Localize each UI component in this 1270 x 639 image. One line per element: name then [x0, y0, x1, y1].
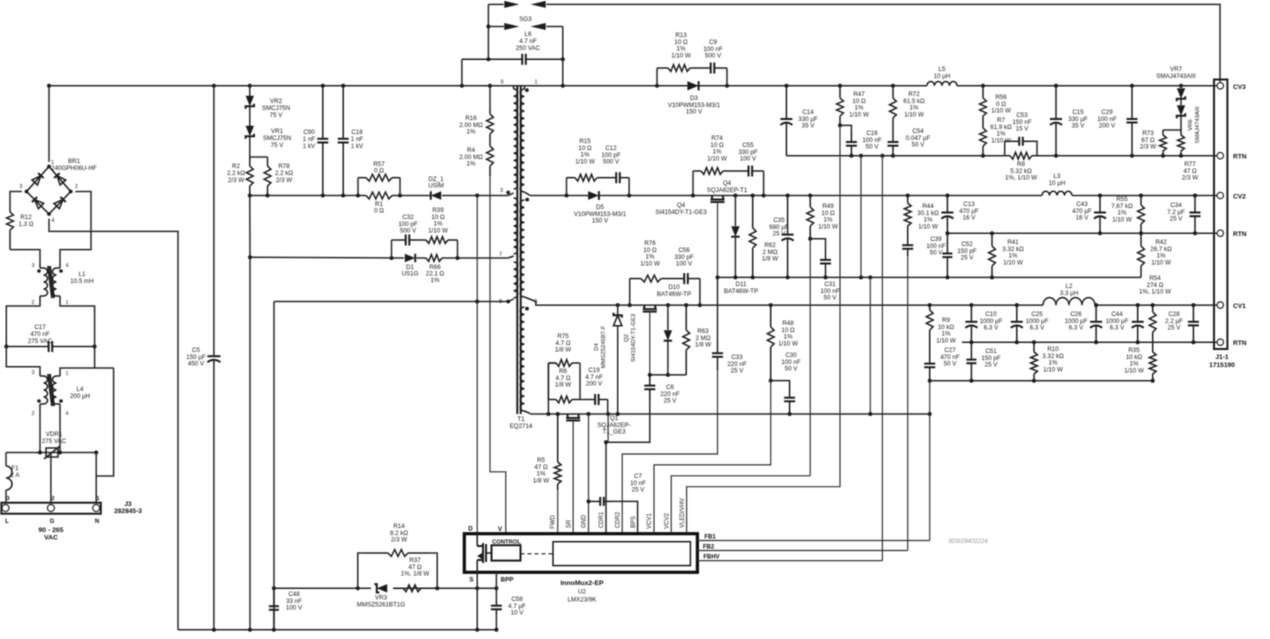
resistor R62 [749, 196, 756, 278]
capacitor C26 [1090, 305, 1102, 342]
svg-text:G: G [50, 519, 55, 525]
pin number 1 [97, 496, 100, 502]
svg-text:450 V: 450 V [188, 361, 205, 368]
svg-text:VCV1: VCV1 [647, 513, 653, 529]
zener VR6 [1177, 105, 1185, 118]
junctions on C17 line [4, 345, 96, 349]
CV1 rail right of L2 [1095, 304, 1217, 306]
label CONTROL [492, 540, 521, 546]
resistor R75 [548, 360, 580, 367]
svg-text:D4: D4 [594, 343, 600, 351]
label R78 [275, 163, 293, 184]
svg-text:VR7: VR7 [1170, 66, 1183, 73]
wire C33 to CDR2 [622, 370, 717, 533]
resistor R10 [1031, 342, 1038, 381]
label R16 [459, 115, 483, 136]
terminal CV2 [1233, 194, 1246, 201]
wire C6 to CDR1 [606, 400, 650, 533]
svg-text:6.3 V: 6.3 V [1069, 325, 1084, 332]
wire RTN3 drop a [860, 156, 862, 278]
CV3 RTN rail right [1037, 155, 1217, 157]
label R8 [1005, 161, 1037, 182]
spark gap SG3 right arrow [531, 23, 546, 30]
svg-text:1/10 W: 1/10 W [991, 108, 1011, 115]
C53 loop [1005, 141, 1012, 155]
label F1 [11, 465, 21, 479]
label R72 [903, 91, 925, 118]
svg-text:L5: L5 [939, 66, 946, 73]
resistor R35 [1149, 342, 1156, 381]
svg-text:CDR2: CDR2 [615, 511, 621, 528]
svg-text:SMAJ4743AIII: SMAJ4743AIII [1195, 106, 1201, 143]
wire N pin up [95, 453, 97, 504]
svg-text:0 Ω: 0 Ω [374, 168, 384, 175]
svg-text:25 V: 25 V [731, 368, 745, 375]
label C32 [398, 214, 417, 235]
label R39 [428, 207, 448, 234]
zener VR2 [246, 96, 254, 109]
wire VR2 to VR1 [249, 107, 251, 126]
CV2 sense line [718, 276, 1142, 278]
svg-text:F1: F1 [11, 465, 19, 472]
CV2 rail right of L3 [1072, 195, 1217, 197]
resistor R14 [366, 550, 428, 557]
U2 pin S [469, 577, 473, 584]
svg-text:C18: C18 [351, 129, 363, 136]
label VR7 [1156, 66, 1196, 80]
capacitor C30 [784, 385, 795, 414]
zener VR3 [374, 584, 387, 592]
label C33 [727, 354, 746, 375]
svg-text:10 V: 10 V [511, 610, 525, 617]
svg-text:470 nF: 470 nF [30, 331, 49, 338]
junctions FB1 divider [969, 379, 1154, 383]
label VR2 [262, 98, 290, 119]
svg-text:1%, 1/8 W: 1%, 1/8 W [401, 571, 430, 578]
pin 5 of T1 [535, 299, 538, 305]
junctions VDR1 line [38, 451, 98, 455]
wire R49 to C31 [810, 239, 825, 246]
label VR3 [357, 595, 405, 609]
zener D4 [614, 313, 622, 326]
svg-text:VR1: VR1 [271, 128, 284, 135]
svg-text:SI4154DY-T1-GE3: SI4154DY-T1-GE3 [655, 209, 707, 216]
diode D10 [664, 330, 672, 340]
J1 pin CV1 [1217, 302, 1223, 308]
junctions CV1 wire [616, 303, 1196, 307]
junction clamp2 corner [248, 255, 252, 259]
label C51 [981, 348, 1000, 369]
U2 pin V [498, 526, 503, 533]
label C54 [906, 128, 931, 149]
label C13 [959, 201, 979, 222]
clamp RC left [547, 363, 549, 414]
label L5 [934, 66, 951, 80]
wire R5 to FWD [557, 490, 559, 533]
svg-text:1.3 Ω: 1.3 Ω [19, 221, 34, 228]
loop2 right [457, 240, 459, 258]
wire R48 to C30 [771, 381, 790, 385]
CV1 RTN rail [962, 341, 1217, 343]
label R7 [990, 117, 1012, 144]
svg-text:VLED/VHV: VLED/VHV [680, 498, 686, 528]
clamp wire [250, 195, 363, 197]
Q2 gate [649, 312, 651, 375]
svg-text:1/10 W: 1/10 W [575, 158, 595, 165]
wire C48 to rail [273, 618, 275, 630]
wire sense to secondary gnd [869, 277, 871, 414]
svg-text:50 V: 50 V [912, 142, 926, 149]
capacitor C39 [902, 238, 913, 256]
wire bulk minus [213, 364, 215, 630]
svg-text:25 V: 25 V [985, 362, 999, 369]
svg-text:75 V: 75 V [270, 112, 284, 119]
svg-text:R2: R2 [232, 163, 240, 170]
label R41 [1002, 239, 1024, 266]
svg-text:U2: U2 [578, 589, 586, 596]
capacitor C18 [338, 86, 349, 196]
zener VR7 [1177, 88, 1185, 101]
VCV2 route [671, 476, 810, 533]
svg-text:US1G: US1G [402, 271, 419, 278]
svg-text:BPS: BPS [631, 516, 637, 528]
dashed link [521, 553, 554, 555]
J1 pin CV2 [1217, 192, 1223, 198]
diode D1 [405, 254, 415, 262]
pin 3 of T1 [500, 188, 503, 194]
BPP VR3 wire [274, 587, 371, 589]
capacitor C90 [317, 86, 328, 196]
svg-text:1%: 1% [431, 277, 440, 284]
capacitor C28 [1188, 305, 1199, 342]
label R1 [374, 201, 384, 215]
terminal CV1 [1233, 303, 1246, 310]
svg-text:BR1: BR1 [68, 158, 81, 165]
label C15 [1068, 109, 1088, 130]
label VR1 [263, 128, 291, 149]
svg-text:L6: L6 [525, 31, 532, 38]
svg-text:InnoMux2-EP: InnoMux2-EP [560, 580, 604, 587]
wire BPP pin [495, 572, 497, 601]
svg-text:3: 3 [500, 188, 503, 194]
pin 2 of L4 [32, 411, 35, 417]
svg-text:1 nF: 1 nF [303, 136, 316, 143]
U2 pin SR [566, 519, 572, 528]
svg-text:D: D [468, 526, 473, 533]
capacitor C19 [586, 394, 608, 405]
resistor R44 [904, 196, 911, 239]
svg-text:7: 7 [499, 252, 502, 258]
resistor R1 [363, 192, 395, 199]
svg-text:FB2: FB2 [703, 545, 715, 551]
label R75 [555, 333, 571, 354]
svg-text:SMCJ75N: SMCJ75N [263, 135, 291, 142]
pin 3 of BR1 [20, 184, 23, 190]
U2 pin VLED VHV [680, 498, 686, 528]
U2 pin FBHV [703, 555, 719, 561]
C7 wire [589, 500, 593, 502]
wire pin8 to D [274, 301, 508, 303]
junction D on pin8 wire [475, 300, 479, 304]
U2 pin VCV1 [647, 513, 653, 529]
svg-text:RTN: RTN [1233, 231, 1247, 238]
wire T1 bottom [529, 412, 531, 415]
label R63 [695, 328, 711, 349]
svg-text:16 V: 16 V [1076, 215, 1090, 222]
U2 internal MOSFET [477, 534, 491, 573]
label R47 [849, 91, 869, 118]
capacitor C13 [941, 196, 953, 234]
junctions gate line [648, 373, 670, 377]
resistor R54 [1149, 305, 1156, 343]
wire fuse to J3 pin3 [5, 490, 7, 503]
J1 pin RTN [1217, 339, 1223, 345]
svg-text:250 VAC: 250 VAC [516, 45, 541, 52]
label R55 [1111, 196, 1133, 223]
label L3 [1049, 173, 1066, 187]
svg-text:2/3 W: 2/3 W [391, 537, 407, 544]
wire D4 top [617, 305, 619, 315]
label DZ_1 [428, 176, 444, 190]
resistor R6 [548, 396, 580, 403]
capacitor C58 [491, 601, 502, 614]
label R6 [555, 368, 571, 389]
resistor R13 [657, 65, 698, 72]
connector J1 body [1214, 80, 1227, 350]
top rail [49, 85, 927, 87]
svg-text:VAC: VAC [44, 535, 58, 542]
svg-text:CDR1: CDR1 [599, 511, 605, 528]
svg-text:1: 1 [97, 496, 100, 502]
svg-text:10 µH: 10 µH [934, 73, 951, 80]
svg-text:VCV2: VCV2 [664, 513, 670, 529]
label C39 [926, 236, 945, 257]
loop2 left [391, 240, 393, 258]
inductor L5 [927, 81, 957, 85]
svg-text:240GPH06U-HF: 240GPH06U-HF [51, 165, 97, 172]
U2 pin BPS [631, 516, 637, 528]
label R5 [533, 457, 549, 484]
gate line [650, 374, 686, 376]
svg-text:1%, 1/10 W: 1%, 1/10 W [1139, 289, 1171, 296]
wire C48 top [273, 588, 275, 598]
common-mode choke L4 [37, 372, 63, 410]
diode DZ_1 [431, 191, 441, 199]
wire R12 to L1 pin3 [10, 250, 40, 264]
label C48 [286, 591, 303, 612]
resistor R47 [837, 86, 844, 126]
svg-text:1: 1 [66, 371, 69, 377]
svg-text:1%: 1% [467, 129, 476, 136]
label L1 [70, 271, 93, 285]
transformer pin dots [506, 88, 529, 310]
zener VR1 [246, 126, 254, 139]
label C7 [630, 473, 646, 494]
label Q1 [597, 415, 630, 436]
wire D11 to sense [734, 237, 736, 277]
wire S pin [476, 572, 478, 629]
svg-text:USIM: USIM [428, 183, 443, 190]
pin 1 of J3 [93, 505, 100, 512]
resistor R63 [683, 305, 690, 375]
svg-text:R12: R12 [20, 214, 32, 221]
junctions CV2 wire [565, 194, 1198, 198]
svg-text:4: 4 [52, 218, 55, 224]
svg-text:2/3 W: 2/3 W [228, 177, 244, 184]
capacitor C6 [644, 375, 655, 400]
svg-text:D10: D10 [668, 284, 680, 291]
label R42 [1150, 239, 1172, 266]
pin 3 of J3 [2, 505, 9, 512]
clamp2 wire c [444, 257, 508, 259]
wire Q4 gate to C33 [717, 277, 719, 340]
pin 1 of BR1 [51, 160, 54, 166]
pin 2 of BR1 [75, 184, 78, 190]
VLED route [687, 125, 840, 533]
capacitor C29 [1127, 86, 1138, 156]
wire bridge top to top rail [48, 86, 50, 162]
wire SG3 left vertical [487, 4, 489, 59]
R57 loop left [357, 178, 359, 196]
label R76 [640, 240, 660, 267]
R14 loop [358, 553, 366, 588]
capacitor C33 [712, 340, 723, 370]
CV1 wire mid [588, 304, 1043, 306]
svg-text:100 V: 100 V [676, 261, 693, 268]
label R4 [459, 147, 483, 168]
transformer T1 [508, 85, 536, 414]
label InnoMux2-EP [560, 580, 604, 587]
label C52 [957, 241, 976, 262]
label BR1 [51, 158, 97, 172]
junctions CV2 RTN [945, 231, 1197, 235]
resistor R4 [487, 142, 494, 176]
resistor R56 [980, 86, 987, 122]
label C17 [28, 324, 53, 345]
svg-text:SQJA62EP-T1: SQJA62EP-T1 [707, 187, 748, 194]
wire CDR1 stub [607, 414, 609, 442]
label C26 [1065, 311, 1088, 332]
svg-text:50 V: 50 V [930, 250, 944, 257]
label Q2 [624, 314, 637, 362]
svg-text:9: 9 [501, 80, 504, 86]
controller U2 body [464, 534, 697, 573]
wire clamp left vert [249, 196, 251, 258]
label C16 [862, 130, 881, 151]
svg-text:VR6: VR6 [1188, 119, 1194, 130]
resistor R39 [417, 237, 458, 244]
FB1 divider line [930, 380, 1153, 382]
svg-text:L2: L2 [1066, 283, 1073, 290]
svg-text:SI4154DY-T1-GE3: SI4154DY-T1-GE3 [631, 314, 637, 362]
svg-text:2 A: 2 A [11, 472, 21, 479]
junctions primary gnd [212, 628, 499, 632]
label L4 [70, 386, 90, 400]
capacitor C5 [207, 352, 220, 364]
svg-text:100 V: 100 V [286, 605, 303, 612]
resistor R76 [630, 275, 672, 282]
resistor R15 [567, 174, 608, 181]
CV2 RTN rail [947, 232, 1216, 234]
pin 9 of T1 [501, 80, 504, 86]
label C31 [820, 281, 839, 302]
label C55 [738, 142, 757, 163]
svg-text:MMSZ5261BT1G: MMSZ5261BT1G [357, 602, 405, 609]
terminal CV3 [1233, 84, 1246, 91]
svg-text:100 V: 100 V [740, 156, 757, 163]
wire FB2 riser [907, 256, 909, 551]
capacitor L6 [462, 54, 563, 65]
spark gap top left arrow [504, 1, 519, 8]
U2 pin VCV2 [664, 513, 670, 529]
capacitor C7 [592, 497, 612, 506]
label C14 [798, 109, 818, 130]
capacitor C43 [1094, 196, 1106, 234]
pin 3 of L1 [32, 263, 35, 269]
resistor R42 [1138, 233, 1145, 277]
label C9 [703, 39, 722, 60]
svg-text:8: 8 [499, 299, 502, 305]
resistor R73 [1160, 130, 1167, 156]
junction SG3 [486, 25, 564, 62]
snubber2 left [629, 279, 631, 306]
wire VR7 to VR6 [1180, 99, 1182, 105]
svg-text:J3: J3 [124, 501, 132, 508]
SG3 right wire [546, 26, 562, 28]
pin 4 of BR1 [52, 218, 55, 224]
svg-text:D11: D11 [736, 281, 747, 288]
clamp wire right [442, 195, 508, 197]
svg-text:Q2: Q2 [624, 334, 630, 342]
svg-text:1/10 W: 1/10 W [671, 52, 691, 59]
C53 loop right [1030, 141, 1037, 155]
capacitor C14 [780, 86, 792, 156]
capacitor C53 [1012, 137, 1030, 146]
U2 pin BPP [501, 577, 514, 584]
svg-text:1/8 W: 1/8 W [762, 256, 778, 263]
svg-text:6.3 V: 6.3 V [984, 325, 999, 332]
svg-text:1/10 W: 1/10 W [849, 111, 869, 118]
svg-text:2: 2 [52, 496, 55, 502]
inductor L3 [1042, 191, 1072, 195]
wire VDR1 line to fuse [5, 453, 7, 467]
svg-text:VDR1: VDR1 [46, 431, 63, 438]
pin 2 of L1 [32, 300, 35, 306]
svg-text:FBHV: FBHV [703, 555, 719, 561]
pin 1 of L4 [66, 371, 69, 377]
wire SG3 right vertical [562, 27, 564, 60]
svg-text:S: S [469, 577, 473, 584]
svg-text:1%: 1% [467, 161, 476, 168]
U2 pin FB2 [703, 545, 715, 551]
label D11 [724, 281, 758, 295]
wire GND riser [588, 414, 590, 533]
U2 pin D [468, 526, 473, 533]
label J1-1 [1209, 354, 1235, 369]
label C19 [585, 367, 603, 388]
label VDR1 [42, 431, 67, 445]
resistor R49 [807, 196, 814, 239]
svg-text:N: N [95, 519, 99, 525]
svg-text:CV1: CV1 [1233, 303, 1246, 310]
wire pin8 corner down [273, 302, 275, 630]
svg-text:3: 3 [32, 370, 35, 376]
pin 4 of L1 [66, 263, 69, 269]
R14 loop b [428, 553, 437, 588]
secondary gnd wire [530, 413, 930, 415]
label C34 [1167, 202, 1185, 223]
junctions secondary gnd [546, 412, 872, 416]
